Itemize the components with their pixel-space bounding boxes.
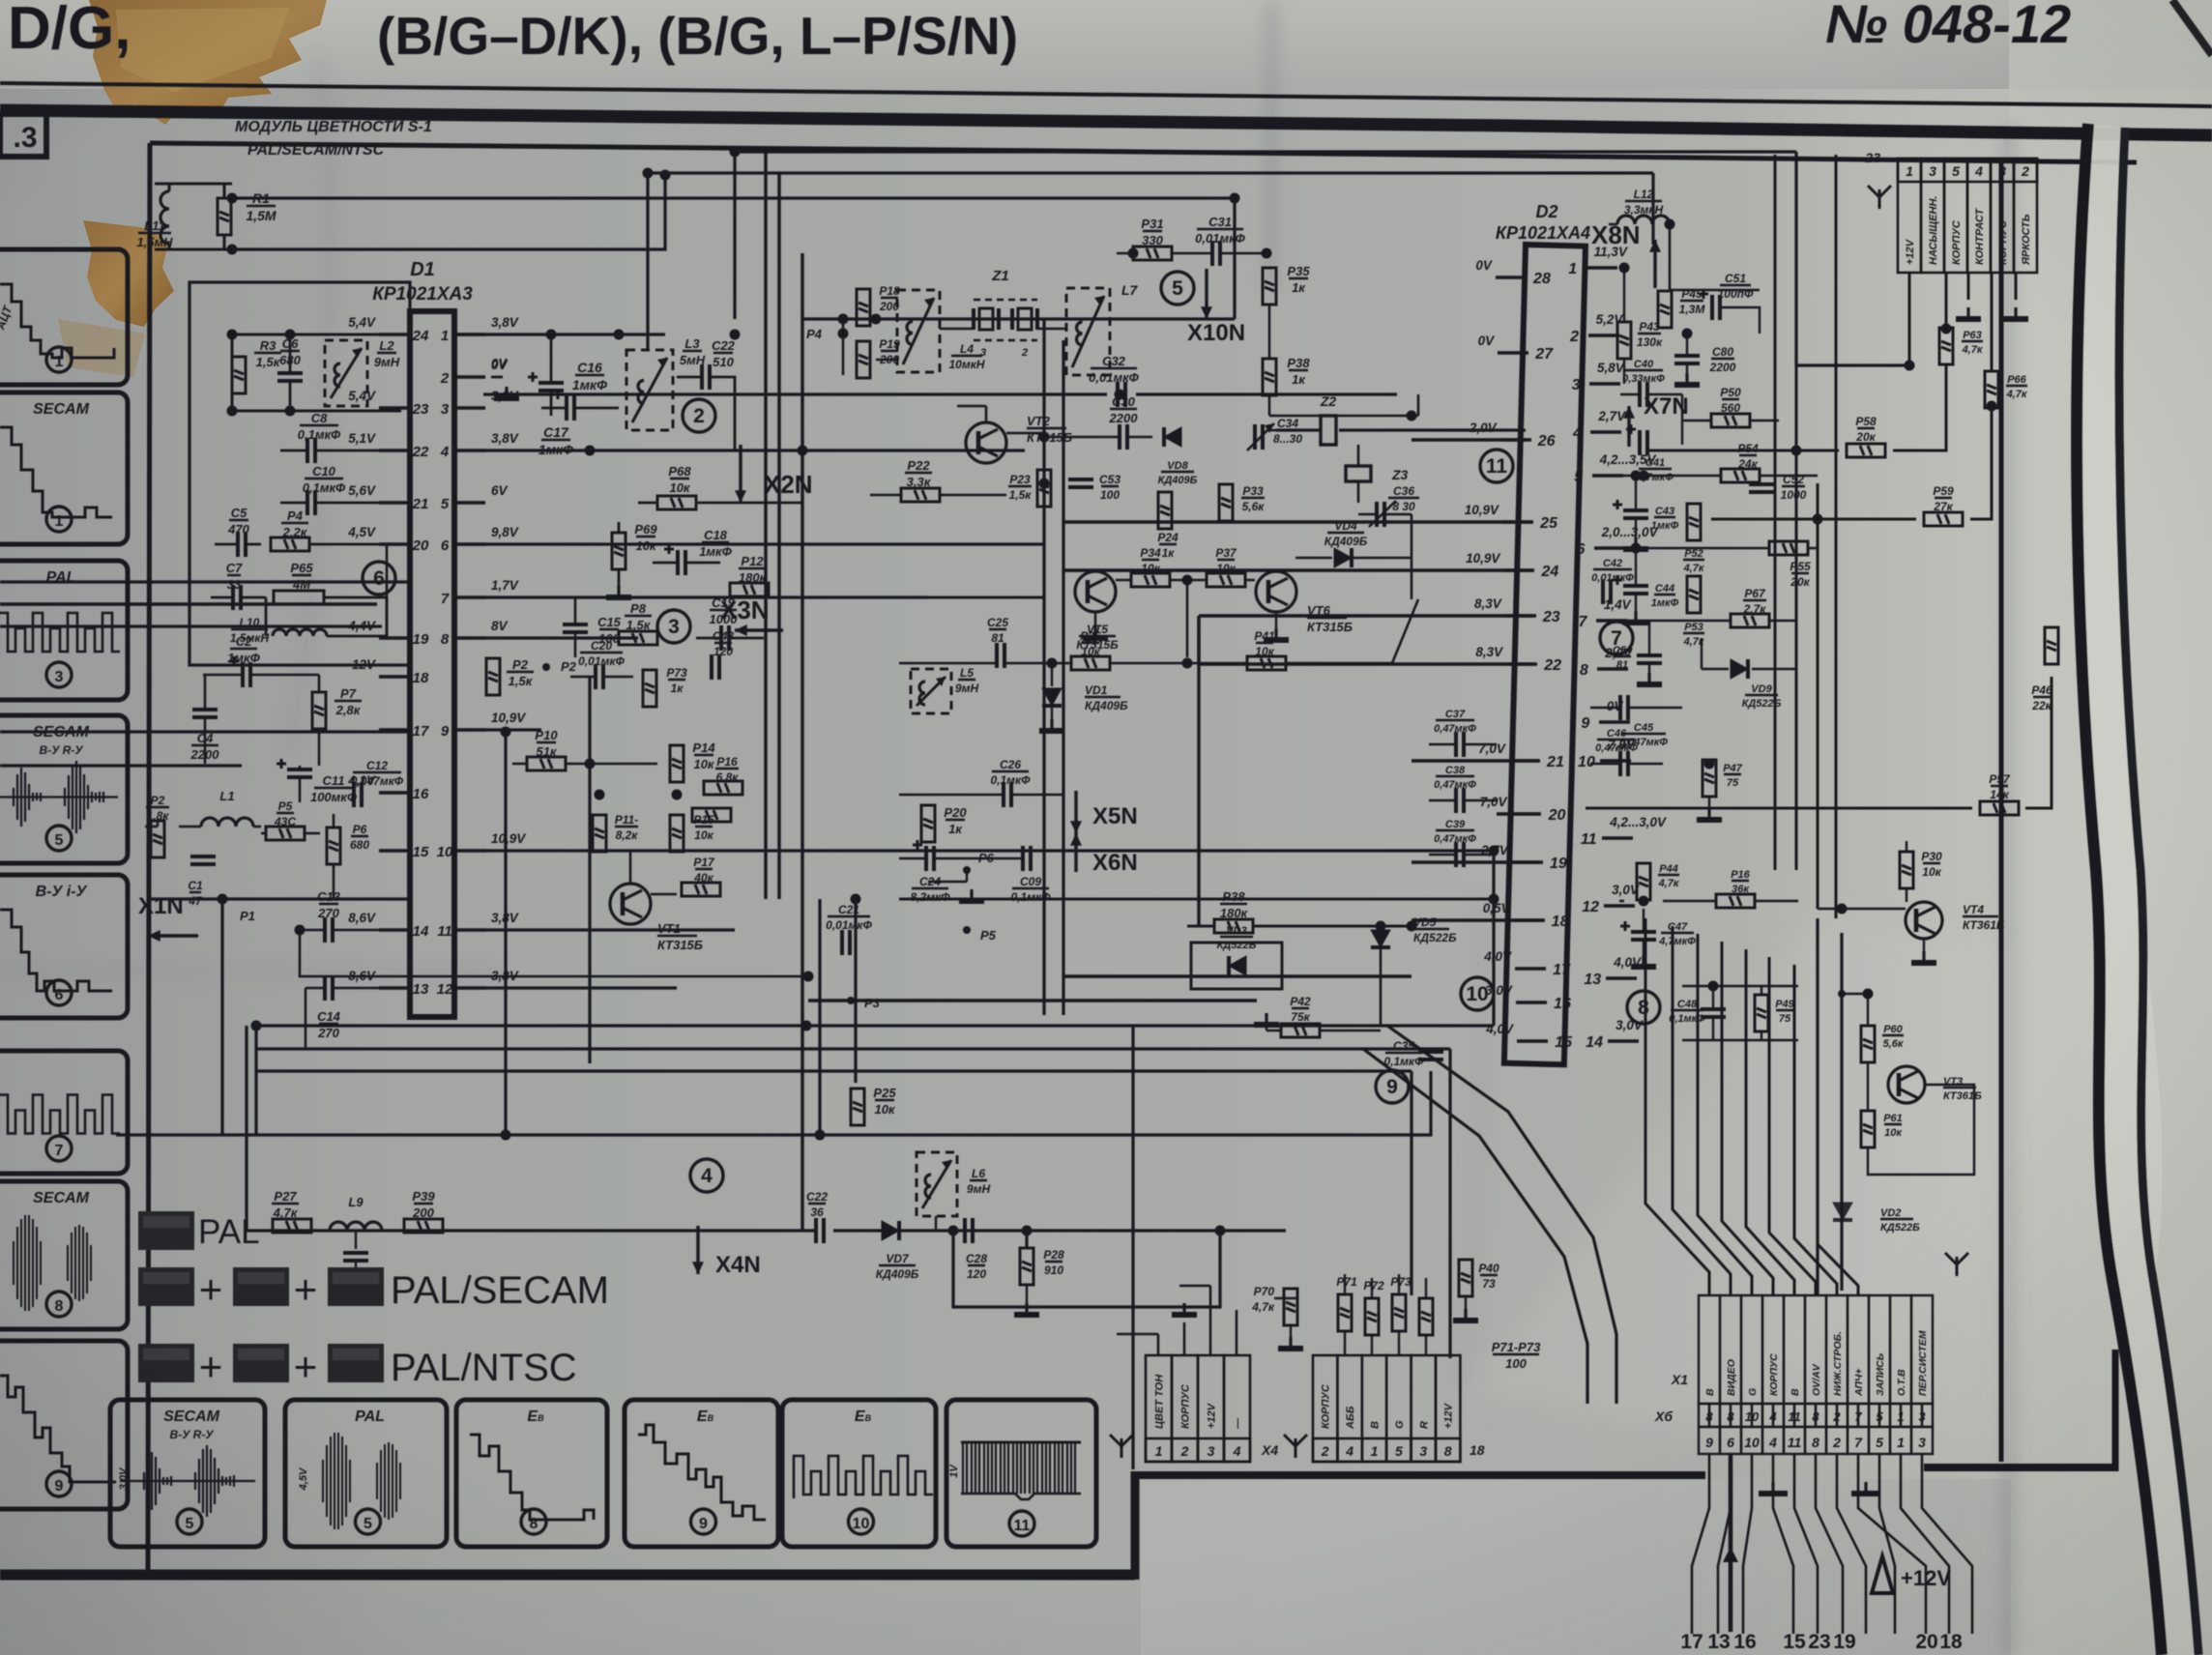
diode VD5	[1371, 930, 1390, 947]
capacitor C28	[965, 1218, 973, 1243]
resistor R35	[1263, 268, 1276, 305]
video pin arrow up	[1729, 1454, 1733, 1632]
capacitor C10	[307, 490, 315, 515]
inductor L7 trim box	[1066, 288, 1110, 375]
IC D2 pin 21	[1509, 759, 1540, 763]
capacitor C3	[190, 857, 216, 864]
diode VD2	[1833, 1203, 1852, 1220]
IC D2 pin 8	[1597, 667, 1628, 671]
node junction	[1182, 575, 1193, 586]
resistor R38a	[1263, 359, 1276, 395]
capacitor C13	[325, 917, 333, 943]
wire long verticals x795	[764, 152, 767, 899]
bottom waveform box E8 pulses	[782, 1400, 936, 1547]
diode VD9	[1731, 659, 1748, 679]
wire row 755 right of D1	[483, 728, 541, 731]
resistor R69	[612, 533, 626, 569]
resistor R43	[1617, 322, 1631, 359]
resistor R50	[1711, 414, 1750, 427]
IC D2 pin 1	[1586, 266, 1617, 270]
IC D2 pin 26	[1500, 438, 1531, 442]
wire X1N row	[148, 897, 410, 900]
junction dots scatter	[730, 147, 741, 158]
inductor L9	[330, 1222, 382, 1231]
inductor L10	[273, 629, 327, 636]
IC D1 pin row 17/9	[379, 728, 410, 732]
capacitor C25	[997, 643, 1004, 668]
resistor R67	[1731, 614, 1769, 627]
antenna symbol near X2	[1284, 1435, 1307, 1458]
wire X1N vertical	[220, 899, 223, 1135]
transistor VT2	[966, 422, 1006, 463]
IC D2 pin 16	[1516, 1001, 1547, 1004]
wire row 618	[483, 595, 928, 598]
IC D2 pin 2	[1588, 334, 1619, 337]
IC D2 pin 17	[1515, 967, 1546, 971]
waveform box w3 PAL	[0, 561, 128, 700]
capacitor C8	[307, 438, 315, 463]
inductor L4 trim box	[897, 290, 940, 372]
resistor R3	[232, 357, 246, 393]
wire loop C13	[300, 930, 808, 976]
torn paper patch top-left	[89, 0, 327, 125]
resistor R8	[619, 631, 657, 645]
resistor R68	[657, 496, 696, 509]
capacitor C31	[1212, 241, 1220, 266]
ground under X3 col3	[1956, 307, 1981, 319]
wire left edge bus b	[0, 624, 382, 627]
inductor L6 trim box	[917, 1152, 957, 1216]
inductor L5 trim box	[911, 669, 951, 713]
diode VD8	[1164, 427, 1181, 447]
wire mid horizontals to D2	[483, 392, 1397, 395]
capacitor C29	[1023, 846, 1031, 871]
wire long row y1174	[116, 1071, 1431, 1135]
capacitor C27	[816, 1218, 824, 1243]
resistor R53	[1687, 576, 1701, 613]
node P1	[218, 895, 226, 903]
resistor R42	[1281, 1024, 1320, 1037]
resistor R17	[682, 883, 720, 896]
wire bus bends to connectors	[1492, 851, 1495, 1026]
capacitor C49 row	[1682, 986, 1798, 1040]
waveform box w2 SECAM	[0, 392, 128, 544]
wire vertical top bus3 right	[1233, 198, 1236, 319]
waveform box w7 SECAM hatch	[0, 1181, 128, 1329]
antenna symbol near X6	[1945, 1253, 1968, 1276]
waveform box w6	[0, 1051, 128, 1174]
resistor R41	[1247, 656, 1286, 670]
label R71-R73	[1492, 1340, 1541, 1371]
transistor VT3	[1888, 1066, 1925, 1103]
waveform box w4 SECAM B-Y R-Y	[0, 715, 128, 863]
arrow X2N	[739, 445, 742, 503]
wire center vertical c	[800, 253, 803, 1231]
IC D1 pin row 23/3	[379, 406, 410, 410]
IC D2 pin 18	[1514, 918, 1545, 922]
resistor R15	[670, 815, 684, 852]
capacitor C30	[1120, 424, 1127, 450]
wire mid-right horizontals lower	[1063, 974, 1412, 977]
bottom waveform box burst hatch	[946, 1400, 1096, 1547]
IC D2 pin 5	[1592, 474, 1623, 478]
resistor R57	[1980, 801, 2019, 815]
capacitor C15	[563, 624, 588, 632]
IC D1 pin row 20/6	[379, 542, 410, 546]
inductor L3 trim box	[626, 350, 673, 430]
arrow X5N	[1074, 791, 1077, 833]
wire left edge bus a	[0, 580, 410, 583]
wire right verticals to bottom connector	[1645, 918, 1709, 1295]
capacitor C51 polar	[1699, 289, 1720, 320]
wire mid bus 3	[256, 1069, 1412, 1072]
IC D2 pin 9	[1599, 720, 1630, 724]
antenna symbol near X4	[1110, 1435, 1133, 1458]
arrow X10N	[1205, 269, 1208, 319]
wire S-bend bundle to X6	[1387, 1026, 1616, 1404]
resistor R70	[1284, 1289, 1297, 1325]
capacitor C17 polar	[553, 390, 574, 421]
resistor R47	[1703, 760, 1716, 797]
wire y700 stub left of VT5	[899, 596, 1044, 599]
IC D1 KR1021XA3	[410, 311, 454, 1017]
resistor R16	[704, 781, 742, 795]
resistor R25	[851, 1089, 864, 1125]
resistor R66	[1985, 371, 1998, 408]
resistor R46	[2045, 627, 2058, 664]
capacitor C50	[1674, 356, 1700, 363]
waveform box w5	[0, 875, 128, 1018]
torn paper patch left	[83, 220, 174, 327]
resistor R55	[1769, 541, 1808, 555]
resistor R24	[1158, 492, 1172, 529]
wire top bus 2	[648, 171, 1653, 174]
capacitor C35	[1418, 1052, 1443, 1060]
wire rows right of D1 long	[483, 849, 1494, 852]
wire X4N loop below	[953, 1231, 1220, 1307]
capacitor C18 polar	[664, 544, 685, 575]
capacitor C23	[712, 654, 719, 680]
resistor R2	[151, 821, 164, 857]
wire R58 row	[1648, 363, 1946, 450]
circled node 7	[1600, 622, 1633, 654]
resistor R4	[271, 537, 309, 551]
IC D1 pin row /2	[454, 375, 485, 379]
wire left edge bus c	[0, 730, 410, 733]
wire mid bus 1	[256, 1024, 1494, 1027]
resistor R30	[1900, 852, 1913, 888]
IC D2 pin 23	[1505, 614, 1536, 618]
IC D2 pin 24	[1503, 568, 1534, 572]
waveform box w1	[0, 249, 128, 385]
wire row 660	[483, 636, 638, 639]
antenna symbol near X3	[1868, 186, 1891, 209]
wire pin24 top link	[454, 333, 665, 335]
resistor R37	[1207, 573, 1245, 587]
IC D2 KR1021XA4	[1504, 245, 1586, 1064]
capacitor C43 polar	[1613, 500, 1648, 518]
circled node 8	[1627, 991, 1660, 1024]
IC D1 pin row 21/5	[379, 501, 410, 505]
capacitor C12	[354, 782, 362, 807]
capacitor C19	[721, 625, 729, 651]
wires above X4	[1158, 1286, 1237, 1355]
capacitor C52	[1749, 484, 1774, 492]
resistor R31	[1133, 247, 1172, 260]
bottom waveform box E8 b	[625, 1400, 778, 1547]
capacitor C53	[1068, 479, 1093, 487]
circled node 11	[1480, 450, 1513, 482]
IC D1 pin row 19/8	[379, 636, 410, 640]
wire row 563	[483, 542, 1044, 545]
IC D2 pin 6	[1594, 546, 1625, 550]
node P2	[542, 663, 550, 671]
wire top bus 1	[735, 150, 1796, 153]
IC D2 pin 12	[1604, 904, 1635, 908]
wire R57 row	[1586, 677, 2052, 808]
resistor R73b	[692, 808, 731, 822]
resistor R19	[857, 341, 870, 378]
IC D1 pin row 13/12	[379, 986, 410, 990]
+12V triangle	[1872, 1556, 1893, 1593]
capacitor C14	[325, 975, 333, 1001]
circled node 6	[363, 562, 395, 595]
resistor R20	[921, 805, 935, 842]
sheet index box 1.3	[0, 114, 46, 157]
resistor R52	[1687, 504, 1701, 540]
circled node 10	[1461, 977, 1494, 1010]
IC D1 pin row 24/1	[379, 333, 410, 336]
bottom waveform box E8 a	[456, 1400, 607, 1547]
waveform box w8	[0, 1341, 128, 1509]
wire vertical from top bus1 left	[733, 152, 736, 319]
connector X2 bottom	[1313, 1355, 1337, 1462]
wire x1240 drop	[1197, 664, 1200, 926]
node P6	[963, 866, 971, 874]
arrow X4N	[696, 1226, 699, 1274]
wire center vertical c2	[818, 899, 821, 1135]
node P3	[847, 997, 855, 1004]
inductor L12	[1617, 216, 1670, 224]
inductor L11	[160, 191, 169, 244]
wire L1 row	[145, 821, 266, 833]
wire connector X3 drops	[1908, 273, 1911, 365]
resistor R6	[327, 827, 340, 864]
wire y465 row	[483, 449, 1025, 451]
wire center vertical a	[504, 732, 507, 1135]
wire center vertical pair	[1042, 319, 1045, 1015]
IC D2 pin 4	[1590, 430, 1621, 434]
wire VT3 box	[1842, 994, 1974, 1175]
IC D1 pin row 16/	[379, 791, 410, 795]
inductor L1	[201, 818, 253, 827]
IC D1 pin row 22/4	[379, 449, 410, 452]
capacitor C21	[842, 930, 850, 955]
capacitor C32	[1118, 382, 1125, 407]
capacitor C22	[702, 364, 710, 390]
resistor R39	[404, 1219, 443, 1233]
capacitor C6	[277, 373, 303, 381]
resistor R27	[273, 1219, 311, 1233]
resistor R44	[1637, 863, 1650, 900]
connector X6 bottom right	[1699, 1295, 1720, 1404]
capacitor C26	[1004, 782, 1011, 807]
wire R59 row	[1711, 406, 1992, 519]
legend row PAL/SECAM	[138, 1267, 194, 1306]
IC D2 pin 25	[1502, 520, 1533, 524]
circled node 4	[690, 1159, 723, 1192]
capacitor C4	[192, 710, 218, 717]
arrow X7N	[1627, 406, 1630, 447]
arrow X8N	[1653, 240, 1656, 288]
IC D2 pin 15	[1517, 1039, 1548, 1043]
ground mid	[1851, 1482, 1880, 1494]
capacitor C16 polar	[528, 372, 564, 391]
wires cluster Z1	[843, 319, 1066, 375]
resistors R71 R72 R73	[1338, 1294, 1352, 1331]
capacitor C40	[1640, 382, 1647, 407]
diode VD3 box	[1191, 943, 1282, 989]
diode VD4	[1334, 548, 1352, 567]
IC D1 pin row 15/10	[379, 849, 410, 853]
IC D2 pin 7	[1596, 619, 1627, 623]
wire left bus third	[0, 602, 377, 606]
subcircuit box left of D1	[189, 282, 410, 665]
resistor R58	[1847, 444, 1885, 457]
capacitor C11 polar	[276, 759, 312, 777]
IC D2 pin 3	[1589, 382, 1620, 386]
wire inside subbox	[232, 334, 410, 411]
resistor R23	[1037, 470, 1051, 507]
resistor R54	[1721, 469, 1760, 482]
IC D1 pin row 18/	[379, 675, 410, 679]
capacitor C47 polar	[1620, 921, 1656, 940]
capacitor C48 and R49	[1701, 1009, 1726, 1017]
wire mid bus 2	[256, 1047, 1450, 1050]
wire vertical from top bus2 left	[646, 173, 649, 351]
ground pin2	[491, 376, 503, 379]
resistor R28	[1020, 1248, 1033, 1285]
IC D2 pin 14	[1608, 1039, 1639, 1043]
arrow X6N	[1074, 833, 1077, 872]
resistor R13	[643, 670, 656, 707]
wire y445 row Z2	[1276, 428, 1526, 431]
connector X3 top right	[1898, 159, 1921, 273]
right page fold dark bands	[2077, 124, 2198, 1655]
IC D2 pin 19	[1512, 860, 1543, 864]
crystal Z2	[1321, 416, 1336, 445]
wire R1 bottom feed	[232, 175, 665, 249]
bottom waveform box SECAM	[110, 1400, 265, 1547]
resistor R65	[274, 591, 324, 604]
resistor R22	[901, 488, 940, 502]
capacitor C20	[596, 664, 603, 689]
node P5	[963, 926, 971, 934]
wire X4N row	[245, 1026, 247, 1231]
IC D1 pin row 14/11	[379, 928, 410, 932]
IC D1 pin row /7	[454, 595, 485, 599]
resistor R1	[218, 198, 231, 235]
trimcap C34	[1255, 424, 1263, 450]
capacitor C46	[1620, 751, 1628, 776]
wire short stubs into X6 numbers	[1708, 1404, 1711, 1427]
capacitor C41	[1626, 424, 1647, 455]
resistor R18	[857, 289, 870, 326]
schematic frame	[150, 143, 2137, 162]
ground under X3 col5	[2003, 307, 2028, 319]
resistor R38 180k	[1214, 919, 1253, 933]
IC D2 pin 28	[1496, 276, 1527, 279]
resistor R5	[266, 827, 305, 840]
diode VD7	[882, 1221, 899, 1240]
capacitor C42	[1603, 579, 1611, 604]
ground under X6 korpus	[1759, 1482, 1788, 1494]
IC D2 pin 13	[1606, 976, 1637, 980]
capacitor C5	[238, 532, 246, 557]
resistor R33	[1219, 484, 1233, 521]
inductor L2 trim box	[325, 340, 367, 406]
resistor R60	[1861, 1026, 1875, 1062]
wire top bus 3	[232, 196, 1235, 199]
wire vertical top bus2 right	[1651, 173, 1654, 245]
resistor R34	[1131, 573, 1170, 587]
resistor R40	[1459, 1260, 1472, 1296]
wire vertical top bus1 right	[1796, 152, 1909, 365]
trimcap C36	[1377, 502, 1384, 527]
resistor R61	[1861, 1111, 1875, 1147]
circled node 3	[657, 610, 690, 643]
wire center vertical b	[588, 677, 591, 1063]
wire R28 drop	[1025, 1231, 1028, 1247]
resistor R12	[730, 583, 769, 596]
IC D2 pin 11	[1602, 836, 1633, 840]
wire left edge bus d	[0, 764, 242, 767]
resistor R7	[312, 692, 326, 729]
capacitors C37 C38 C39	[1456, 732, 1464, 757]
transistor VT1	[610, 884, 651, 924]
wire center vertical e	[1131, 1026, 1134, 1469]
diode VD1	[1042, 688, 1062, 706]
wire right verticals upper	[1774, 155, 1777, 870]
IC D2 pin 20	[1510, 812, 1541, 816]
resistor R10	[527, 757, 566, 770]
IC D2 pin 27	[1498, 351, 1528, 355]
connector X4 bottom	[1146, 1355, 1172, 1462]
arrow X3N	[735, 628, 783, 631]
wires under X6 to bottom pins	[1692, 1454, 1709, 1634]
legend row PAL/NTSC	[138, 1344, 194, 1382]
capacitor C45	[1620, 695, 1628, 720]
legend row PAL	[138, 1211, 194, 1250]
wire X5N X6N rows	[899, 794, 1063, 797]
node 6 link	[387, 544, 410, 636]
resistor R59	[1924, 512, 1963, 526]
node P4	[839, 330, 847, 337]
transistor VT5	[1075, 571, 1116, 612]
resistor R48	[1716, 894, 1755, 908]
wire rows to D2 left pins	[1412, 438, 1526, 442]
transistor VT4	[1906, 902, 1942, 939]
capacitor C54	[1637, 655, 1662, 663]
resistor R11	[593, 815, 606, 852]
crystal Z3	[1346, 466, 1371, 481]
capacitor to ground under L9	[355, 1231, 357, 1249]
IC D2 pin 10	[1600, 759, 1631, 763]
capacitor C7	[233, 585, 241, 610]
capacitor C44 polar	[1613, 575, 1648, 594]
bottom waveform box PAL	[285, 1400, 447, 1547]
IC D2 pin 22	[1506, 662, 1537, 666]
